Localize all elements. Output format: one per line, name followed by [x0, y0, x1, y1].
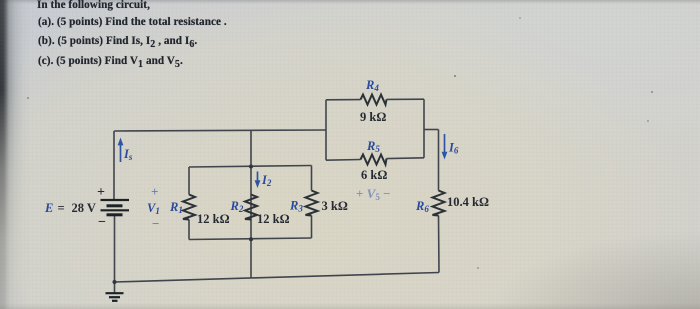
- node junction dot top of R2: [249, 165, 253, 169]
- wire R3 leads: [311, 166, 313, 191]
- resistor R2 zigzag: [245, 195, 257, 220]
- resistor R1 zigzag: [183, 195, 195, 220]
- wire inner box bottom rail: [189, 238, 312, 240]
- svg-text:−: −: [98, 215, 106, 230]
- current arrow I6: [442, 134, 448, 160]
- resistor R5 zigzag: [361, 155, 387, 165]
- wire R4R5 box bottom rail segments: [326, 159, 361, 162]
- svg-text:R6: R6: [415, 199, 429, 214]
- wire stub to R6 branch: [424, 129, 439, 131]
- problem statement line 3: [38, 35, 197, 47]
- wire bottom rail: [115, 273, 440, 283]
- svg-text:6 kΩ: 6 kΩ: [361, 168, 387, 182]
- resistor R6 zigzag: [433, 191, 445, 216]
- svg-text:R5: R5: [366, 139, 380, 154]
- wire R4R5 box top rail segments: [326, 99, 361, 101]
- battery E symbol: [101, 200, 130, 215]
- svg-text:28 V: 28 V: [72, 201, 96, 215]
- wire R6 top lead: [438, 130, 440, 191]
- label E value = 28 V: [58, 110, 489, 230]
- current arrow Is: [118, 138, 124, 163]
- problem statement line 4: [38, 55, 183, 67]
- wire R6 bottom lead: [438, 216, 441, 273]
- node junction dot bottom of R2: [249, 237, 253, 241]
- wire ground stem: [114, 282, 116, 293]
- svg-text:I2: I2: [261, 173, 272, 188]
- svg-text:+: +: [97, 185, 105, 200]
- wire left vertical (battery top lead): [113, 131, 115, 200]
- resistor R4 zigzag: [361, 95, 387, 105]
- svg-text:R4: R4: [365, 78, 379, 93]
- wire left vertical (battery bottom lead): [114, 215, 116, 282]
- ground: [106, 293, 124, 301]
- node junction dot bottom-left: [113, 280, 117, 284]
- svg-text:−: −: [152, 216, 159, 231]
- svg-text:R2: R2: [230, 199, 244, 214]
- svg-text:V1: V1: [147, 201, 160, 216]
- wire R1 leads: [188, 167, 190, 195]
- svg-text:R1: R1: [169, 200, 183, 215]
- svg-text:3 kΩ: 3 kΩ: [322, 199, 348, 213]
- svg-text:10.4 kΩ: 10.4 kΩ: [447, 195, 489, 209]
- svg-text:12 kΩ: 12 kΩ: [197, 212, 230, 226]
- wire R4R5 box right edge: [423, 99, 425, 158]
- svg-text:=: =: [58, 201, 65, 215]
- svg-text:9 kΩ: 9 kΩ: [360, 110, 386, 124]
- problem statement line 1: [37, 0, 150, 11]
- svg-text:12 kΩ: 12 kΩ: [257, 212, 290, 226]
- svg-text:I6: I6: [448, 141, 459, 156]
- problem statement line 2: [38, 16, 227, 28]
- wire middle vertical: [250, 131, 252, 278]
- wire top rail: [114, 130, 326, 131]
- svg-text:Is: Is: [123, 147, 133, 162]
- wire inner box top rail: [189, 166, 312, 168]
- current arrow I2: [255, 172, 261, 189]
- svg-text:+ V5 −: + V5 −: [356, 186, 391, 202]
- wire R4R5 box left edge: [325, 100, 327, 160]
- resistor R3 zigzag: [306, 191, 318, 216]
- svg-text:R3: R3: [289, 199, 303, 214]
- svg-text:+: +: [151, 184, 158, 199]
- dust specks: [27, 17, 653, 269]
- svg-text:E: E: [44, 201, 53, 215]
